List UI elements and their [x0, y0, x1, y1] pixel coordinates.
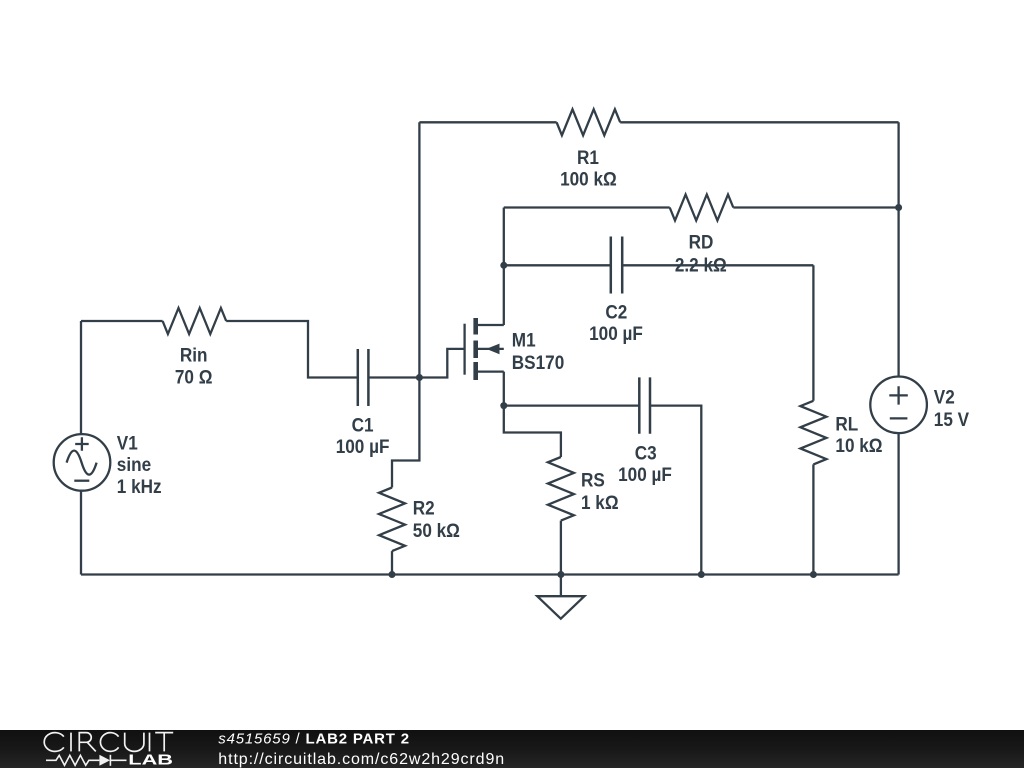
- svg-text:1 kHz: 1 kHz: [117, 475, 162, 497]
- wire V1 bottom: [80, 491, 82, 575]
- source V2 minus: [890, 417, 908, 419]
- svg-text:RL: RL: [835, 412, 858, 434]
- svg-text:LAB: LAB: [128, 751, 173, 768]
- svg-text:100 µF: 100 µF: [589, 322, 643, 344]
- logo squiggle resistor-diode: [46, 755, 127, 766]
- svg-text:C2: C2: [605, 301, 627, 323]
- svg-text:R2: R2: [413, 497, 435, 519]
- label C2: [605, 301, 627, 323]
- wire RD net right: [733, 206, 898, 208]
- wire R2 jog: [392, 378, 419, 488]
- svg-text:C1: C1: [352, 413, 374, 435]
- ground: [560, 575, 562, 597]
- svg-text:Rin: Rin: [180, 344, 208, 366]
- label R1: [577, 146, 599, 168]
- source V2 circle: [870, 377, 927, 434]
- transistor M1 drain lead: [478, 324, 504, 326]
- svg-text:BS170: BS170: [512, 351, 564, 373]
- wire C1 to gate: [368, 349, 464, 378]
- svg-text:RD: RD: [689, 230, 714, 252]
- wire RL bottom lead: [812, 464, 814, 574]
- node junction RD-V2 column: [895, 204, 902, 211]
- svg-text:1 kΩ: 1 kΩ: [581, 491, 619, 513]
- wire source column: [504, 372, 561, 457]
- transistor M1 body lead: [478, 348, 504, 350]
- label V2: [934, 385, 955, 407]
- svg-text:100 µF: 100 µF: [336, 435, 390, 457]
- wire RD net left: [504, 206, 670, 208]
- source V2 plus: [889, 386, 908, 404]
- transistor M1 gate bar: [463, 324, 465, 375]
- svg-text:s4515659 / LAB2 PART 2: s4515659 / LAB2 PART 2: [218, 731, 410, 748]
- wire bottom rail: [81, 573, 899, 575]
- resistor R2: [379, 488, 405, 552]
- node junction R2-rail: [389, 571, 396, 578]
- label RS: [581, 468, 605, 490]
- svg-text:15 V: 15 V: [934, 408, 970, 430]
- resistor R1: [557, 109, 621, 135]
- wire Rin net left: [81, 320, 163, 322]
- resistor RL: [800, 401, 826, 465]
- svg-text:V2: V2: [934, 385, 955, 407]
- transistor M1 source lead: [478, 370, 504, 372]
- svg-text:sine: sine: [117, 453, 151, 475]
- label RD: [689, 230, 714, 252]
- wire V1 top: [80, 321, 82, 434]
- resistor Rin: [163, 308, 227, 334]
- wire C3 net right: [650, 406, 701, 575]
- wire right vertical to V2: [897, 122, 899, 376]
- wire RL top vertical: [812, 265, 814, 401]
- wire top rail right segment: [620, 121, 898, 123]
- wire C3 net left: [504, 404, 640, 406]
- label V1: [117, 431, 138, 453]
- label C1: [352, 413, 374, 435]
- svg-text:M1: M1: [512, 328, 536, 350]
- label Rin: [180, 344, 208, 366]
- resistor RS: [548, 457, 574, 521]
- node junction RL-rail: [810, 571, 817, 578]
- source V1 sine: [67, 451, 97, 475]
- node junction source-C3: [500, 402, 507, 409]
- svg-text:100 µF: 100 µF: [618, 463, 672, 485]
- node drain column: [503, 208, 505, 326]
- source V1 circle: [54, 434, 111, 491]
- svg-text:http://circuitlab.com/c62w2h29: http://circuitlab.com/c62w2h29crd9n: [218, 751, 505, 768]
- wire RS bottom lead: [560, 521, 562, 575]
- capacitor C1: [358, 349, 369, 406]
- wire C2 net left: [504, 264, 611, 266]
- transistor M1 channel bars: [473, 318, 478, 380]
- wire C2 net right: [622, 264, 813, 266]
- node junction C1-gate-R2: [416, 374, 423, 381]
- svg-text:100 kΩ: 100 kΩ: [560, 168, 617, 190]
- source V1 plus: [75, 437, 89, 451]
- source V1 minus: [74, 480, 89, 482]
- label R2: [413, 497, 435, 519]
- node junction RS-rail: [557, 571, 564, 578]
- capacitor C2: [611, 237, 622, 294]
- label M1: [512, 328, 536, 350]
- logo CIRCUIT letters: [44, 733, 173, 752]
- node junction C3-rail: [698, 571, 705, 578]
- svg-text:70 Ω: 70 Ω: [175, 365, 213, 387]
- label C3: [635, 441, 657, 463]
- svg-text:10 kΩ: 10 kΩ: [835, 434, 882, 456]
- logo LAB: [128, 751, 173, 768]
- wire V2 bottom: [897, 433, 899, 574]
- svg-text:R1: R1: [577, 146, 599, 168]
- wire R2 bottom lead: [391, 551, 393, 574]
- resistor RD: [670, 195, 734, 221]
- label RL: [835, 412, 858, 434]
- svg-text:50 kΩ: 50 kΩ: [413, 519, 460, 541]
- transistor M1 body arrow: [486, 344, 499, 355]
- wire Rin net right: [226, 321, 358, 378]
- wire top-left vertical: [418, 122, 420, 377]
- node junction drain-C2: [500, 262, 507, 269]
- capacitor C3: [639, 377, 650, 433]
- wire top rail left segment: [419, 121, 556, 123]
- footer bar: [0, 730, 1024, 768]
- svg-text:RS: RS: [581, 468, 605, 490]
- svg-text:C3: C3: [635, 441, 657, 463]
- svg-text:V1: V1: [117, 431, 138, 453]
